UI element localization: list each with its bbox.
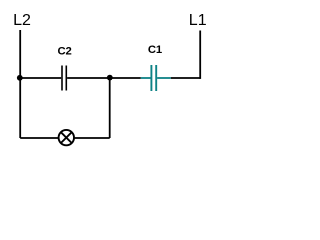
svg-text:L1: L1 bbox=[189, 12, 207, 29]
svg-text:C1: C1 bbox=[148, 44, 162, 56]
svg-text:C2: C2 bbox=[58, 46, 72, 58]
svg-text:L2: L2 bbox=[13, 12, 31, 29]
